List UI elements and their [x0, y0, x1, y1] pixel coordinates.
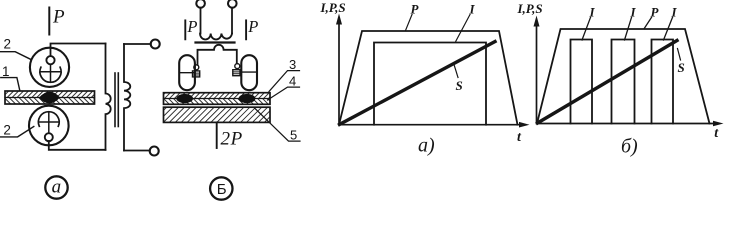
- svg-text:t: t: [714, 126, 719, 141]
- transformer T2 primary winding: [200, 34, 232, 40]
- graph b: curve S (displacement): [538, 41, 678, 124]
- graph a: curve S (displacement): [340, 42, 496, 125]
- svg-text:I: I: [589, 4, 596, 19]
- svg-text:4: 4: [289, 74, 296, 89]
- force arrow P (left electrode): [184, 20, 186, 39]
- circled letter Б (caption of diagram Б): [210, 177, 232, 199]
- svg-text:P: P: [52, 6, 65, 27]
- svg-text:б): б): [621, 136, 638, 158]
- graph b: y-axis: [536, 26, 538, 124]
- transformer T1 primary winding: [124, 44, 130, 151]
- electrode (left): [179, 55, 195, 90]
- workpiece sheets 1 (two sheets, seam welded): [5, 91, 95, 104]
- graph b: x-axis: [537, 123, 716, 125]
- svg-text:5: 5: [290, 128, 297, 143]
- weld nugget (seam, diagram a): [39, 92, 60, 104]
- graph b: curve P (trapezoid): [537, 29, 710, 124]
- transformer T1 core: [114, 73, 116, 127]
- transformer T2 core: [196, 41, 235, 43]
- svg-text:I: I: [671, 4, 678, 19]
- wire to bottom terminal: [124, 150, 150, 152]
- svg-text:S: S: [678, 60, 685, 75]
- svg-text:I,P,S: I,P,S: [320, 0, 346, 15]
- svg-text:2: 2: [3, 122, 11, 137]
- graph a: x-axis: [339, 124, 523, 126]
- circled letter a (caption of diagram a): [45, 176, 67, 198]
- svg-text:P: P: [186, 17, 197, 36]
- weld nugget (right point): [239, 94, 256, 103]
- terminal (bottom, diagram a): [150, 147, 159, 156]
- graph a: y-axis: [338, 23, 340, 125]
- svg-text:3: 3: [289, 57, 296, 72]
- svg-text:а: а: [52, 176, 62, 197]
- svg-text:2: 2: [4, 37, 12, 52]
- wire to top terminal: [124, 43, 151, 45]
- clamp contact (left): [194, 65, 199, 70]
- graph b: curve I pulse 1: [571, 40, 593, 124]
- wire: right primary lead: [231, 8, 233, 34]
- svg-text:1: 1: [2, 64, 10, 79]
- wire: bottom frame conductor: [49, 141, 106, 150]
- svg-text:S: S: [456, 78, 463, 93]
- svg-text:P: P: [247, 17, 258, 36]
- terminal (right, diagram Б): [228, 0, 237, 8]
- wire: top frame conductor: [51, 44, 106, 57]
- graph a: curve P (trapezoid): [339, 31, 518, 125]
- graph b: curve I pulse 3: [652, 40, 674, 124]
- terminal (left, diagram Б): [196, 0, 205, 8]
- svg-text:t: t: [517, 130, 522, 145]
- wire: left primary lead: [200, 8, 202, 34]
- force arrow P (diagram a): [48, 8, 50, 35]
- svg-text:Б: Б: [217, 181, 227, 198]
- weld nugget (left point): [176, 94, 193, 103]
- workpiece sheet 4 (bottom sheet): [164, 99, 271, 105]
- svg-text:I,P,S: I,P,S: [517, 1, 543, 16]
- electrode (right): [241, 55, 257, 90]
- workpiece sheet 3 (top sheet): [164, 93, 271, 99]
- roller electrode 2 (bottom): [29, 106, 69, 146]
- transformer T1 secondary winding (welding loop side): [106, 44, 111, 150]
- transformer T2 secondary single-turn loop: [198, 45, 237, 65]
- clamp contact (right): [235, 64, 240, 69]
- reaction force 2P: [216, 122, 218, 148]
- roller electrode 2 (top): [30, 48, 69, 87]
- terminal (top, diagram a): [151, 40, 160, 49]
- force arrow P (right electrode): [245, 20, 247, 39]
- svg-text:2P: 2P: [221, 129, 243, 150]
- svg-text:I: I: [630, 4, 637, 19]
- backing plate 5: [164, 107, 271, 122]
- svg-text:а): а): [418, 135, 435, 157]
- graph a: curve I (rectangle pulse): [374, 43, 486, 125]
- graph b: curve I pulse 2: [612, 40, 635, 124]
